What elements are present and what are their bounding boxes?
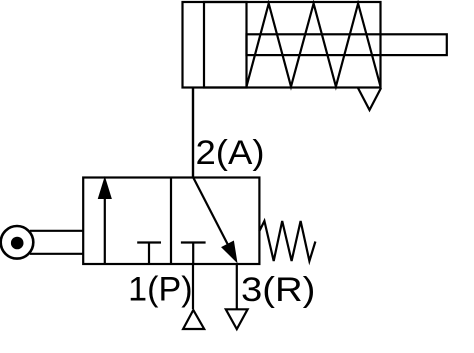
svg-text:1(P): 1(P)	[128, 271, 192, 309]
piston	[204, 2, 247, 88]
exhaust triangle (port 3)	[226, 309, 248, 329]
vent triangle (cylinder spring chamber)	[358, 88, 381, 110]
push button actuator rod	[30, 231, 83, 254]
wire from valve port 2 to cylinder	[192, 88, 194, 179]
push button knob	[1, 226, 34, 259]
port 3(R) line	[236, 264, 238, 309]
port 1(P) line	[192, 264, 194, 309]
cylinder barrel (single-acting cylinder)	[183, 2, 381, 88]
return spring (cylinder)	[247, 4, 381, 87]
svg-text:2(A): 2(A)	[196, 134, 265, 172]
flow arrow up (left position)	[98, 178, 111, 264]
valve position divider	[170, 178, 172, 265]
return spring (valve)	[259, 221, 315, 261]
svg-text:3(R): 3(R)	[241, 271, 315, 309]
blocked port T (left position)	[137, 243, 161, 265]
flow arrow diagonal 2-to-3 (right position)	[194, 178, 237, 262]
supply triangle (port 1)	[183, 310, 204, 329]
piston rod	[247, 34, 447, 55]
push button center dot	[11, 237, 24, 250]
blocked port T (right position, port 1)	[181, 243, 206, 265]
valve V1 body (3/2-way valve)	[83, 178, 259, 265]
